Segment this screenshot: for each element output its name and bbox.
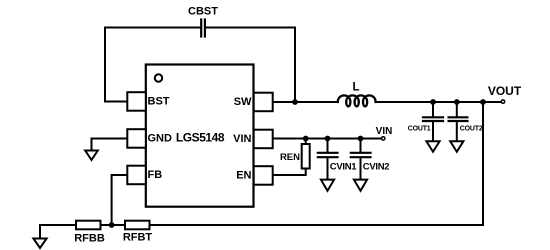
svg-text:CBST: CBST xyxy=(188,5,218,17)
wire REN to EN pin xyxy=(273,139,306,176)
ground COUT1 xyxy=(426,141,439,152)
svg-text:COUT1: COUT1 xyxy=(408,126,431,133)
pin VIN xyxy=(233,130,273,149)
node VOUT xyxy=(488,84,522,103)
junction SW/CBST xyxy=(292,99,298,105)
inductor L xyxy=(338,82,376,107)
wire CBST right to SW net xyxy=(206,28,295,103)
svg-text:L: L xyxy=(352,82,359,94)
pin SW xyxy=(234,93,273,112)
wire GND pin xyxy=(92,139,128,151)
junction COUT2 xyxy=(454,99,460,105)
ground COUT2 xyxy=(450,141,463,152)
capacitor COUT1 xyxy=(408,102,443,141)
svg-text:VOUT: VOUT xyxy=(488,84,522,98)
wire VIN pin to VIN terminal xyxy=(273,138,381,140)
svg-text:VIN: VIN xyxy=(376,126,393,137)
resistor REN xyxy=(280,144,310,169)
svg-text:CVIN2: CVIN2 xyxy=(363,161,389,172)
svg-text:LGS5148: LGS5148 xyxy=(176,131,225,145)
wire BST to CBST left xyxy=(105,28,200,102)
pin FB xyxy=(127,166,162,185)
svg-text:CVIN1: CVIN1 xyxy=(330,161,357,172)
junction COUT1 xyxy=(430,99,436,105)
svg-text:BST: BST xyxy=(148,95,170,107)
svg-text:REN: REN xyxy=(280,152,300,163)
svg-text:RFBT: RFBT xyxy=(123,232,153,244)
resistor RFBB xyxy=(74,221,105,245)
pin GND xyxy=(127,129,172,148)
junction CVIN2 xyxy=(358,136,364,142)
pin-1 indicator circle xyxy=(155,74,162,81)
IC U1 LGS5148 body xyxy=(146,65,254,207)
junction REN xyxy=(303,136,309,142)
svg-text:FB: FB xyxy=(148,169,163,181)
wire ground stub bottom-left xyxy=(39,225,41,239)
svg-text:VIN: VIN xyxy=(233,133,251,145)
resistor RFBT xyxy=(123,221,153,244)
ground CVIN2 xyxy=(354,180,367,191)
pin EN xyxy=(236,166,272,185)
capacitor CBST xyxy=(188,5,218,36)
capacitor COUT2 xyxy=(449,102,483,141)
junction CVIN1 xyxy=(325,136,331,142)
svg-text:RFBB: RFBB xyxy=(74,232,105,244)
svg-text:SW: SW xyxy=(234,96,252,108)
wire feedback drop from VOUT net xyxy=(482,102,484,225)
wire FB pin down to divider xyxy=(112,175,127,225)
wire SW pin to inductor xyxy=(273,101,338,103)
svg-text:GND: GND xyxy=(148,132,173,144)
svg-text:EN: EN xyxy=(236,169,251,181)
node VIN xyxy=(376,126,393,140)
capacitor CVIN2 xyxy=(351,139,389,180)
ground bottom-left xyxy=(33,239,46,249)
ground GND pin xyxy=(85,151,98,161)
junction FB divider xyxy=(109,222,115,228)
wire inductor to VOUT xyxy=(376,101,501,103)
capacitor CVIN1 xyxy=(318,139,357,180)
ground CVIN1 xyxy=(321,180,334,191)
wire bottom feedback run xyxy=(40,224,483,226)
junction feedback tap xyxy=(480,99,486,105)
svg-text:COUT2: COUT2 xyxy=(460,126,483,133)
pin BST xyxy=(127,92,169,111)
